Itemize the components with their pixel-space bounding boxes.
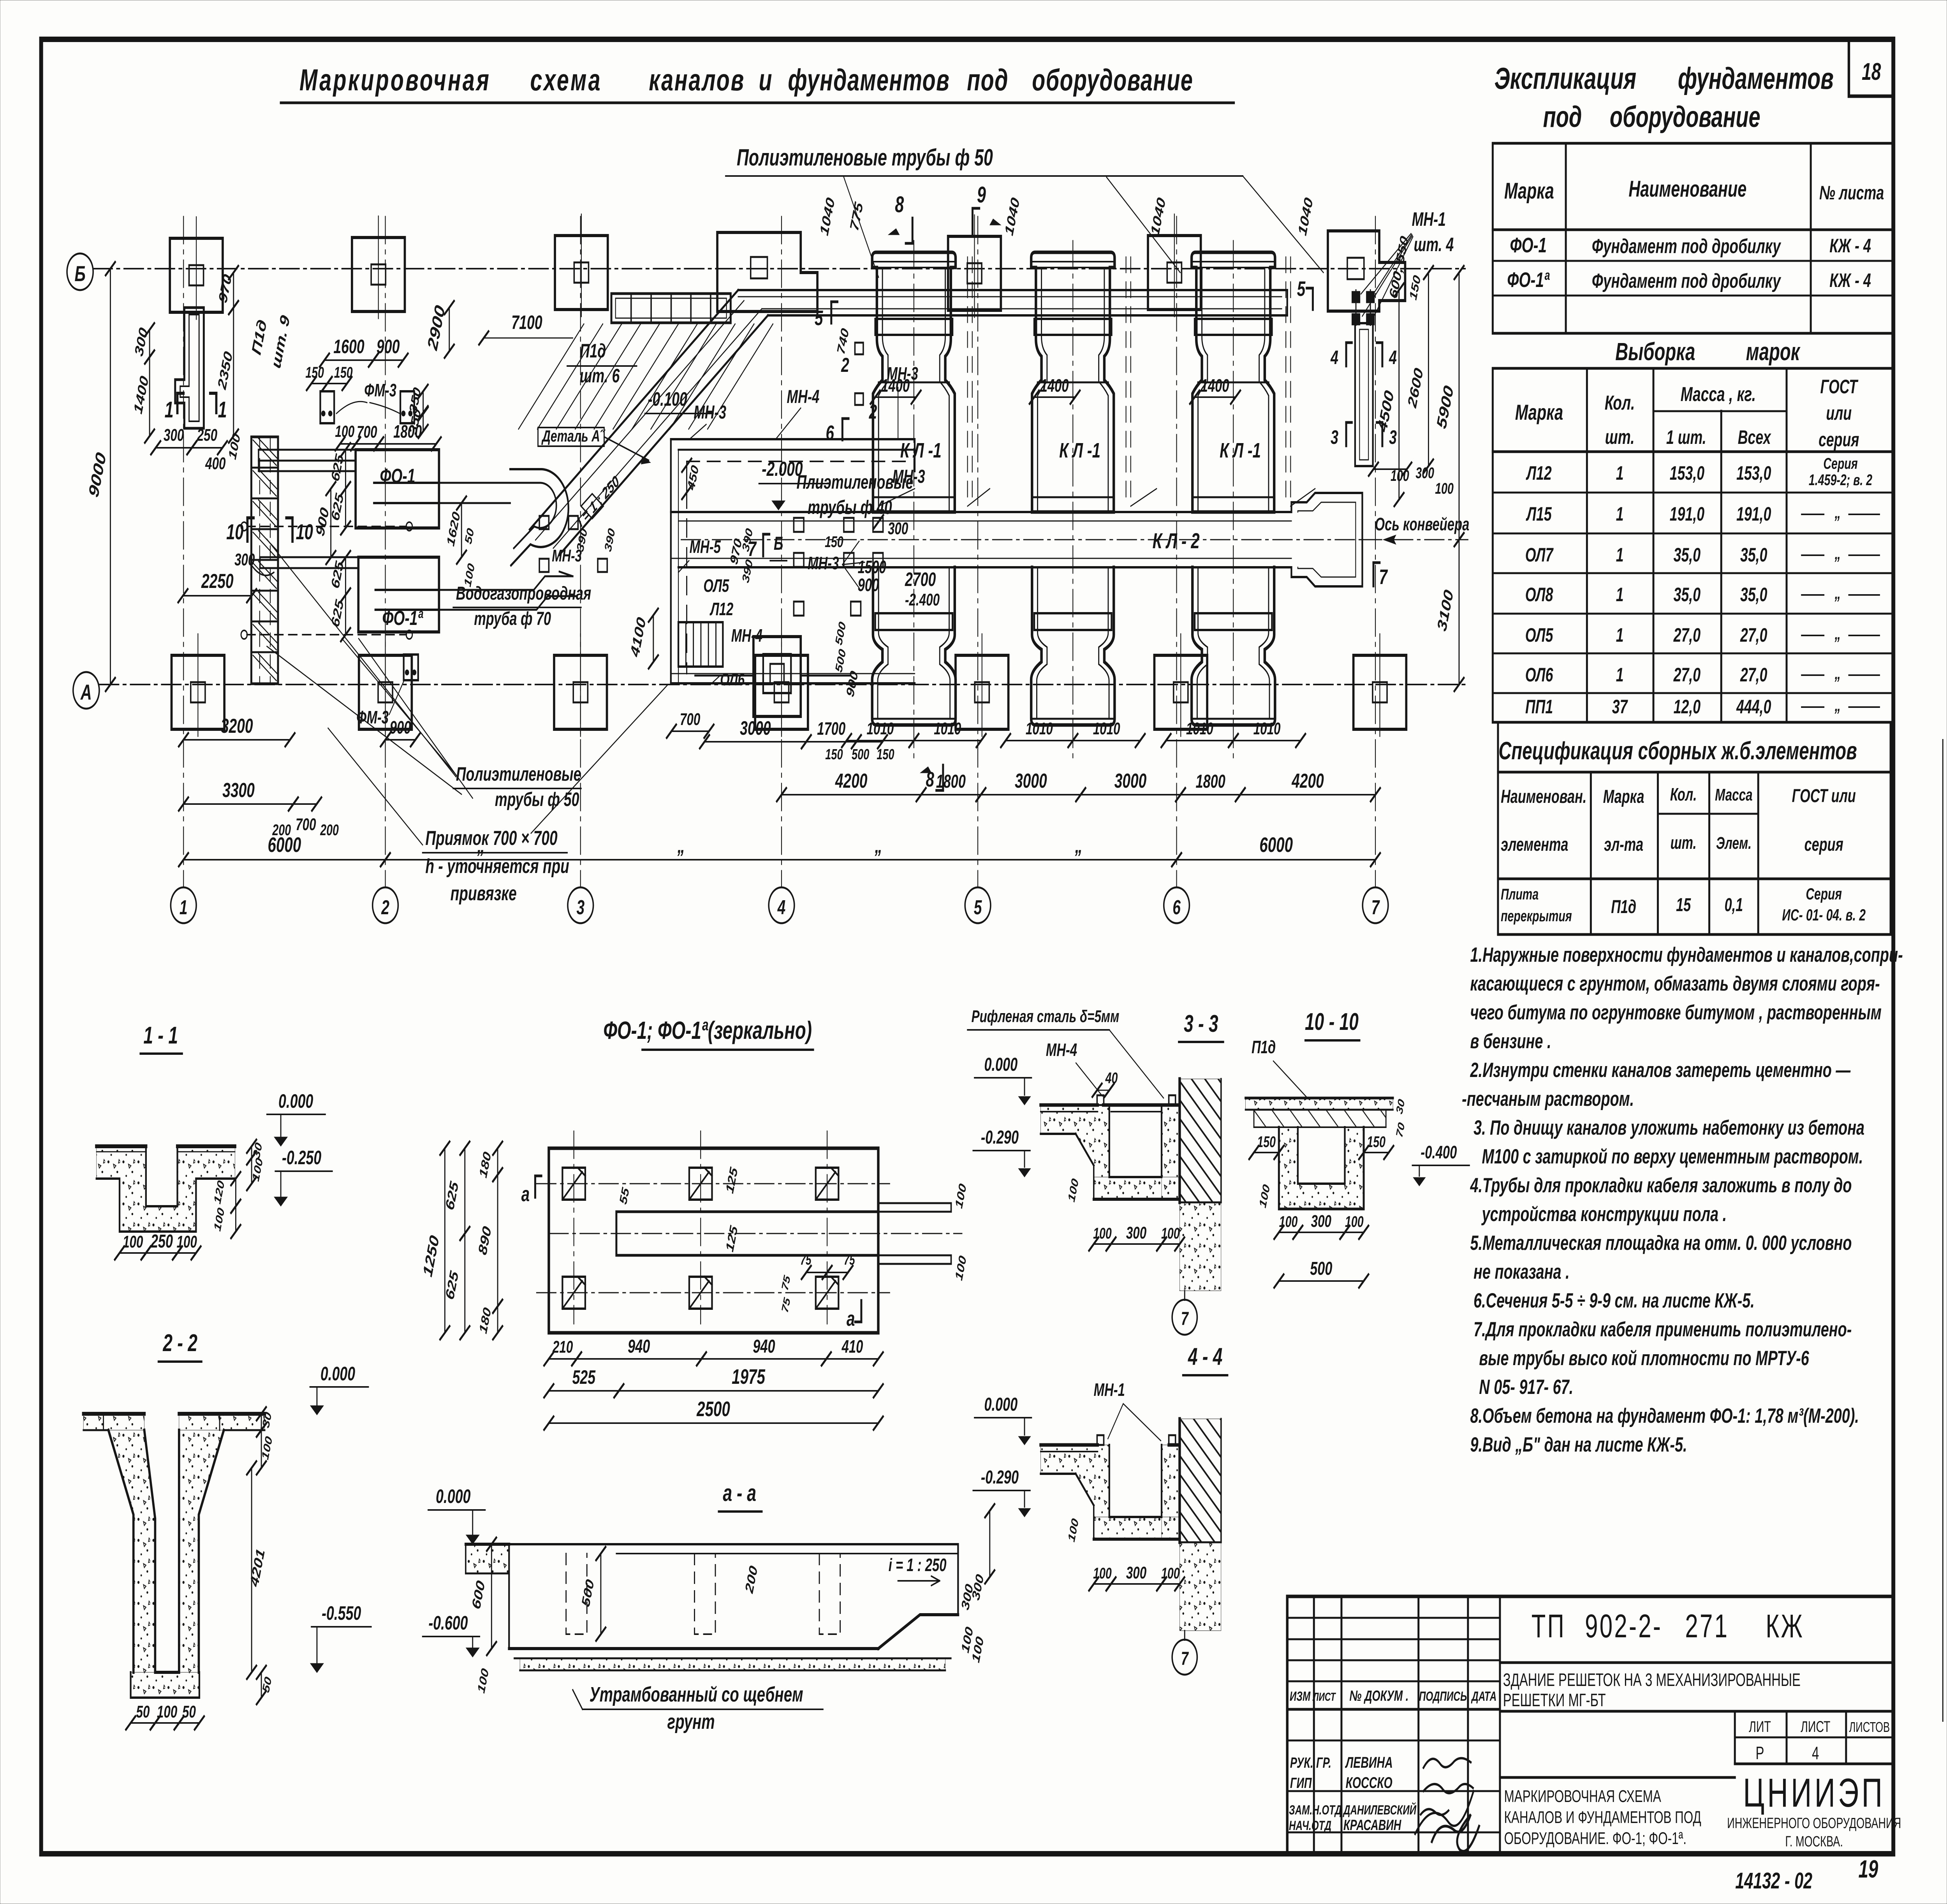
svg-text:Л12: Л12 [1526, 463, 1552, 484]
svg-text:Л15: Л15 [1526, 503, 1552, 525]
svg-text:27,0: 27,0 [1740, 664, 1767, 686]
svg-text:1800: 1800 [393, 422, 422, 442]
svg-text:5: 5 [974, 896, 982, 919]
dim 300 (T channel) [149, 330, 150, 357]
svg-text:„: „ [1834, 584, 1841, 603]
svg-text:-0.400: -0.400 [1421, 1143, 1457, 1163]
svg-text:191,0: 191,0 [1670, 503, 1704, 525]
svg-text:1010: 1010 [867, 719, 894, 738]
svg-text:2.Изнутри стенки каналов: 2.Изнутри стенки каналов затереть цемент… [1470, 1058, 1851, 1082]
svg-text:50: 50 [182, 1702, 196, 1721]
section 1-1 body [97, 1146, 235, 1232]
svg-text:оборудование: оборудование [1610, 100, 1760, 133]
svg-text:6: 6 [1172, 896, 1181, 919]
svg-text:6.Сечения 5-5 ÷ 9-9 см. на: 6.Сечения 5-5 ÷ 9-9 см. на листе КЖ-5. [1473, 1289, 1755, 1312]
svg-text:100: 100 [1435, 480, 1454, 497]
svg-text:ОЛ6: ОЛ6 [1525, 664, 1553, 686]
svg-text:ФО-1: ФО-1 [380, 465, 415, 487]
svg-text:300: 300 [1126, 1223, 1146, 1242]
svg-text:1: 1 [180, 896, 188, 919]
svg-text:-2.400: -2.400 [905, 590, 940, 609]
svg-text:18: 18 [1862, 58, 1881, 85]
svg-text:4 - 4: 4 - 4 [1188, 1343, 1222, 1370]
pit bottom line [671, 673, 915, 674]
svg-text:под: под [967, 63, 1009, 97]
svg-text:3200: 3200 [221, 714, 253, 737]
svg-text:6000: 6000 [268, 833, 301, 857]
column A5 [956, 655, 1009, 729]
column B2 [352, 238, 405, 311]
svg-text:N 05- 917- 67.: N 05- 917- 67. [1479, 1375, 1573, 1399]
svg-text:не показана .: не показана . [1473, 1260, 1570, 1283]
КЛ-1 jug 2 [1031, 252, 1114, 512]
svg-text:153,0: 153,0 [1736, 463, 1771, 484]
svg-text:КЖ: КЖ [1766, 1608, 1804, 1644]
ФО-1 plan anchor squares [562, 1168, 585, 1200]
svg-text:0.000: 0.000 [320, 1363, 355, 1385]
svg-text:марок: марок [1746, 338, 1801, 365]
svg-text:грунт: грунт [667, 1710, 715, 1733]
axis Б line [93, 268, 1465, 269]
svg-text:-0.600: -0.600 [428, 1612, 468, 1634]
section 2-2 bottom dims [131, 1722, 155, 1724]
svg-text:210: 210 [552, 1337, 573, 1357]
КЛ-2 axis dash [681, 539, 1379, 540]
dim chain 4200..4200 [782, 794, 921, 795]
grid line 4 [781, 216, 782, 887]
svg-text:РЕШЕТКИ МГ-БТ: РЕШЕТКИ МГ-БТ [1503, 1691, 1606, 1710]
svg-text:устройства конструкции пол: устройства конструкции пола . [1481, 1202, 1727, 1226]
svg-text:Марка: Марка [1603, 786, 1644, 807]
svg-text:„: „ [1075, 834, 1083, 857]
column B4 (with notch) [717, 232, 817, 311]
section 2-2 funnel right wall [179, 1430, 224, 1672]
svg-text:3: 3 [1331, 427, 1338, 448]
svg-text:-0.550: -0.550 [322, 1603, 361, 1624]
а-а bottom bed [520, 1658, 945, 1670]
svg-text:1: 1 [1616, 625, 1624, 646]
sheet number box 18 [1849, 39, 1893, 96]
svg-text:902-2-: 902-2- [1585, 1608, 1662, 1644]
svg-text:1: 1 [1616, 503, 1624, 525]
svg-text:в бензине .: в бензине . [1470, 1029, 1551, 1053]
svg-text:МАРКИРОВОЧНАЯ СХЕМА: МАРКИРОВОЧНАЯ СХЕМА [1504, 1787, 1662, 1806]
svg-text:НАЧ.ОТД: НАЧ.ОТД [1289, 1818, 1331, 1833]
svg-text:250: 250 [150, 1230, 173, 1251]
svg-text:10: 10 [296, 520, 313, 544]
svg-text:вые трубы высо кой плотно: вые трубы высо кой плотности по МРТУ-6 [1479, 1346, 1809, 1370]
dim 4100 [653, 615, 654, 662]
svg-text:ДАТА: ДАТА [1471, 1689, 1496, 1704]
svg-text:а - а: а - а [723, 1480, 756, 1506]
svg-text:-0.100: -0.100 [648, 389, 687, 410]
svg-text:КАНАЛОВ И ФУНДАМЕНТОВ ПОД: КАНАЛОВ И ФУНДАМЕНТОВ ПОД [1504, 1808, 1701, 1827]
svg-text:4200: 4200 [1291, 769, 1324, 792]
svg-text:Элем.: Элем. [1716, 834, 1752, 853]
svg-text:7: 7 [1379, 565, 1388, 589]
svg-text:ТП: ТП [1532, 1608, 1566, 1644]
svg-text:27,0: 27,0 [1740, 625, 1767, 646]
svg-text:1975: 1975 [732, 1365, 765, 1388]
svg-text:900: 900 [390, 718, 411, 738]
svg-text:Масса , кг.: Масса , кг. [1681, 383, 1756, 406]
dim chain 3200/3300 left [183, 739, 290, 741]
svg-text:7.Для прокладки кабеля пр: 7.Для прокладки кабеля применить полиэти… [1473, 1318, 1852, 1341]
svg-text:7: 7 [1181, 1648, 1189, 1669]
svg-text:900: 900 [377, 336, 400, 357]
svg-text:каналов: каналов [649, 63, 745, 97]
svg-text:ЦНИИЭП: ЦНИИЭП [1743, 1770, 1885, 1816]
svg-text:1: 1 [218, 397, 227, 422]
svg-text:300: 300 [888, 519, 908, 538]
svg-text:1700: 1700 [817, 719, 845, 739]
svg-text:100: 100 [1279, 1213, 1298, 1230]
svg-text:0.000: 0.000 [278, 1091, 313, 1112]
svg-text:i = 1 : 250: i = 1 : 250 [889, 1556, 947, 1575]
а-а left stub [466, 1544, 509, 1573]
svg-text:1 шт.: 1 шт. [1666, 427, 1706, 448]
svg-text:перекрытия: перекрытия [1501, 908, 1572, 925]
svg-text:1 - 1: 1 - 1 [143, 1022, 178, 1049]
МН-1 channel strip [1355, 323, 1373, 466]
svg-text:„: „ [1834, 664, 1841, 683]
а-а dashed anchor slots [566, 1554, 587, 1634]
svg-text:Марка: Марка [1515, 401, 1563, 425]
svg-text:150: 150 [305, 364, 324, 381]
column A1 [172, 655, 225, 729]
svg-text:-0.250: -0.250 [282, 1147, 321, 1168]
svg-text:МН-1: МН-1 [1412, 209, 1446, 230]
svg-text:0.000: 0.000 [436, 1486, 470, 1507]
scan right paper edge [1942, 740, 1943, 1721]
svg-text:444,0: 444,0 [1736, 696, 1771, 718]
svg-text:100: 100 [1345, 1213, 1364, 1230]
top walkway channel (П1д band) [738, 289, 1287, 291]
svg-text:3000: 3000 [740, 718, 771, 739]
svg-text:410: 410 [841, 1337, 863, 1357]
svg-text:1010: 1010 [934, 719, 961, 738]
svg-text:а: а [847, 1307, 855, 1330]
svg-text:8: 8 [895, 192, 904, 217]
svg-text:МН-3: МН-3 [694, 401, 726, 422]
svg-text:100: 100 [335, 422, 354, 440]
svg-text:ЛИСТ: ЛИСТ [1312, 1690, 1336, 1703]
svg-text:7: 7 [1181, 1308, 1189, 1329]
svg-text:3: 3 [576, 896, 584, 919]
svg-text:3300: 3300 [222, 779, 255, 802]
svg-text:ГОСТ: ГОСТ [1820, 376, 1859, 398]
svg-text:ИС- 01- 04. в. 2: ИС- 01- 04. в. 2 [1782, 906, 1866, 924]
svg-text:2700: 2700 [905, 569, 936, 590]
svg-text:1400: 1400 [881, 376, 910, 396]
svg-text:6000: 6000 [1259, 833, 1293, 857]
svg-text:ФМ-3: ФМ-3 [364, 381, 396, 401]
svg-text:15: 15 [1676, 894, 1691, 915]
dim 1400 [149, 357, 150, 436]
ФМ-3 anchor plates top [320, 391, 334, 423]
КЛ-2 head (right end) [1291, 493, 1362, 586]
ФО-1 plan slot [616, 1212, 878, 1255]
svg-text:35,0: 35,0 [1674, 544, 1701, 566]
column A3 [554, 655, 607, 729]
svg-text:150: 150 [825, 746, 843, 762]
svg-text:37: 37 [1612, 696, 1628, 718]
10-10 dims [1254, 1152, 1279, 1153]
svg-text:1800: 1800 [936, 771, 966, 792]
svg-text:1: 1 [1616, 584, 1624, 605]
column B7 (with tab) [1328, 231, 1405, 311]
svg-text:7100: 7100 [511, 312, 542, 333]
dims bottom pit [671, 730, 709, 732]
svg-text:ЛИСТ: ЛИСТ [1801, 1718, 1830, 1735]
svg-text:4.Трубы для прокладки кабе: 4.Трубы для прокладки кабеля заложить в … [1470, 1174, 1852, 1197]
svg-text:100: 100 [1093, 1225, 1112, 1242]
svg-text:КРАСАВИН: КРАСАВИН [1343, 1816, 1401, 1833]
svg-text:Масса: Масса [1715, 785, 1752, 804]
svg-text:трубы ф 50: трубы ф 50 [495, 789, 579, 810]
КЛ-1 jug 1 [872, 252, 956, 512]
svg-text:-0.290: -0.290 [981, 1126, 1019, 1147]
svg-text:6: 6 [826, 421, 834, 445]
ФО-1 plan centerlines [537, 1183, 890, 1184]
svg-text:Б: Б [774, 533, 783, 554]
svg-text:МН-1: МН-1 [1094, 1380, 1125, 1400]
svg-text:ПП1: ПП1 [1525, 696, 1553, 718]
svg-text:трубы ф 40: трубы ф 40 [808, 497, 892, 518]
svg-text:касающиеся с грунтом, обмаза: касающиеся с грунтом, обмазать двумя сло… [1470, 972, 1880, 995]
svg-text:„: „ [1834, 503, 1841, 522]
svg-text:Ось конвейера: Ось конвейера [1375, 515, 1470, 535]
channel loop inner [510, 483, 556, 548]
dashed pipe run between ФО [247, 526, 407, 527]
svg-text:схема: схема [530, 63, 602, 97]
svg-text:Фундамент под дробилку: Фундамент под дробилку [1592, 235, 1781, 258]
svg-text:фундаментов: фундаментов [788, 63, 950, 97]
svg-text:Серия: Серия [1806, 885, 1842, 903]
svg-text:27,0: 27,0 [1673, 664, 1701, 686]
svg-text:Кол.: Кол. [1605, 391, 1635, 414]
svg-text:ЛИСТОВ: ЛИСТОВ [1849, 1719, 1890, 1735]
svg-text:„: „ [1834, 624, 1841, 643]
svg-text:ФО-1ª: ФО-1ª [382, 607, 424, 630]
svg-text:ОЛ5: ОЛ5 [703, 576, 729, 596]
svg-text:1010: 1010 [1093, 719, 1120, 738]
svg-text:50: 50 [136, 1702, 150, 1721]
svg-text:0,1: 0,1 [1725, 894, 1743, 915]
grid line 6 [1176, 216, 1177, 887]
svg-text:150: 150 [1367, 1133, 1385, 1151]
svg-text:ГОСТ или: ГОСТ или [1792, 785, 1856, 806]
svg-text:№ ДОКУМ .: № ДОКУМ . [1349, 1687, 1408, 1704]
svg-text:эл-та: эл-та [1604, 834, 1643, 855]
svg-text:150: 150 [334, 364, 353, 381]
svg-text:2: 2 [381, 896, 389, 919]
svg-text:1: 1 [165, 397, 174, 422]
zigzag notches on diagonal [581, 494, 603, 519]
ramp hatch [519, 324, 584, 429]
svg-text:-песчаным раствором.: -песчаным раствором. [1462, 1087, 1634, 1110]
svg-text:2250: 2250 [201, 570, 233, 593]
svg-text:300: 300 [1126, 1563, 1146, 1582]
svg-text:ДАНИЛЕВСКИЙ: ДАНИЛЕВСКИЙ [1342, 1802, 1416, 1818]
priyamok column [753, 637, 801, 716]
svg-text:4: 4 [1389, 347, 1397, 368]
title block [1287, 1596, 1893, 1854]
dim 2350 [233, 308, 234, 436]
svg-text:35,0: 35,0 [1740, 584, 1767, 605]
svg-text:К Л -1: К Л -1 [1220, 439, 1261, 462]
svg-text:100: 100 [123, 1232, 143, 1251]
svg-text:153,0: 153,0 [1670, 463, 1704, 484]
pit dashed inner [687, 461, 907, 462]
svg-text:1010: 1010 [1186, 719, 1213, 738]
svg-text:2 - 2: 2 - 2 [163, 1330, 197, 1357]
dims 1010 pairs [847, 740, 914, 741]
column A4 [755, 655, 808, 729]
svg-text:ЗДАНИЕ РЕШЕТОК НА 3 МЕХАНИЗИ: ЗДАНИЕ РЕШЕТОК НА 3 МЕХАНИЗИРОВАННЫЕ [1503, 1670, 1801, 1690]
pipe squares grid [794, 518, 804, 532]
section 3-3 body [1040, 1105, 1109, 1177]
svg-text:250: 250 [197, 426, 217, 445]
table 2: выборка марок grid [1493, 368, 1893, 722]
svg-text:1600: 1600 [333, 336, 364, 357]
dims above ФО-1 [324, 359, 373, 361]
svg-text:Утрамбованный со щебнем: Утрамбованный со щебнем [590, 1683, 803, 1706]
svg-text:150: 150 [1257, 1133, 1276, 1151]
svg-text:Л12: Л12 [709, 600, 734, 619]
svg-text:h - уточняется при: h - уточняется при [425, 855, 569, 878]
svg-text:300: 300 [164, 426, 184, 445]
svg-text:200: 200 [320, 822, 338, 839]
grid line 3 [580, 216, 581, 887]
dashed riser lines next to jugs [967, 257, 968, 506]
svg-text:40: 40 [1105, 1070, 1118, 1087]
svg-text:А: А [80, 681, 92, 705]
svg-text:„: „ [677, 834, 685, 857]
svg-text:1010: 1010 [1253, 719, 1281, 738]
а-а rotated dims [491, 1544, 492, 1649]
foundation ФО-1а [358, 557, 439, 632]
zigzag channel to ФО-1а [500, 576, 573, 590]
svg-text:К Л -1: К Л -1 [1059, 439, 1100, 462]
svg-text:ЛИТ: ЛИТ [1749, 1718, 1771, 1735]
ФО-1 plan left dims [444, 1148, 445, 1333]
svg-text:3: 3 [1389, 427, 1397, 448]
svg-text:„: „ [1834, 696, 1841, 715]
svg-text:привязке: привязке [451, 882, 517, 905]
axis А line [99, 684, 1465, 685]
svg-text:700: 700 [357, 422, 377, 442]
svg-text:„: „ [1834, 544, 1841, 563]
dim 300/250 bottom [156, 447, 192, 449]
svg-text:900: 900 [858, 575, 879, 595]
svg-text:-0.290: -0.290 [981, 1466, 1019, 1487]
svg-text:27,0: 27,0 [1673, 625, 1701, 646]
svg-text:ОЛ6: ОЛ6 [720, 670, 745, 689]
svg-text:14132 - 02: 14132 - 02 [1735, 1868, 1812, 1893]
svg-text:3000: 3000 [1114, 769, 1147, 792]
svg-text:2500: 2500 [696, 1397, 730, 1421]
svg-text:Экспликация: Экспликация [1495, 62, 1636, 95]
svg-text:ФО-1ª: ФО-1ª [1507, 268, 1550, 292]
svg-text:П1д: П1д [1252, 1038, 1276, 1058]
svg-text:ГИП: ГИП [1290, 1774, 1312, 1791]
svg-text:525: 525 [572, 1367, 596, 1388]
svg-text:ФО-1: ФО-1 [1510, 234, 1547, 257]
svg-text:ОЛ5: ОЛ5 [1525, 625, 1553, 646]
table 1: экспликация grid [1493, 143, 1893, 333]
column B3 [555, 236, 608, 310]
svg-text:100: 100 [1161, 1565, 1180, 1582]
svg-text:7: 7 [1371, 896, 1380, 919]
axis Б circle [67, 253, 93, 290]
svg-text:ОЛ7: ОЛ7 [1525, 544, 1554, 566]
column B5 [948, 236, 1001, 310]
grid line 2 [385, 216, 386, 887]
svg-text:Полиэтиленовые: Полиэтиленовые [456, 764, 581, 785]
svg-text:шт.: шт. [1605, 426, 1635, 449]
svg-text:4: 4 [1330, 347, 1338, 368]
svg-text:5.Металлическая площадка на: 5.Металлическая площадка на отм. 0. 000 … [1470, 1231, 1852, 1255]
svg-text:3. По днищу каналов уложить: 3. По днищу каналов уложить набетонку из… [1473, 1116, 1864, 1139]
ФО-1 plan bottom dims [549, 1358, 576, 1360]
svg-text:Наименован.: Наименован. [1501, 786, 1586, 807]
КЛ-1 jug 3 [1192, 252, 1275, 512]
svg-text:9.Вид „Б" дан на листе КЖ-: 9.Вид „Б" дан на листе КЖ-5. [1470, 1433, 1687, 1456]
svg-text:элемента: элемента [1501, 834, 1568, 855]
svg-text:а: а [521, 1183, 530, 1206]
svg-text:П1д: П1д [580, 340, 606, 362]
svg-text:75: 75 [844, 1252, 855, 1268]
svg-text:ОЛ8: ОЛ8 [1525, 584, 1553, 605]
channel loop (Деталь А) outer [510, 469, 569, 565]
svg-text:чего битума по огрунтовке: чего битума по огрунтовке битумом , раст… [1470, 1001, 1882, 1024]
section 1-1 rotated dims [251, 1146, 252, 1158]
channel T (section 1-1 object) [175, 308, 204, 428]
svg-text:9: 9 [977, 182, 986, 208]
svg-text:8.Объем бетона на фундамент: 8.Объем бетона на фундамент ФО-1: 1,78 м… [1470, 1404, 1859, 1427]
svg-text:МН-3: МН-3 [893, 466, 925, 487]
svg-text:Р: Р [1756, 1744, 1764, 1763]
svg-text:4: 4 [777, 896, 785, 919]
svg-text:0.000: 0.000 [984, 1054, 1018, 1075]
МН-1 black plates [1352, 291, 1360, 303]
channels to ФО-1а [260, 556, 359, 558]
svg-text:300: 300 [1311, 1212, 1331, 1231]
svg-text:Г. МОСКВА.: Г. МОСКВА. [1785, 1833, 1843, 1849]
svg-text:75: 75 [800, 1252, 812, 1268]
svg-text:Всех: Всех [1738, 427, 1771, 448]
svg-text:500: 500 [852, 746, 870, 762]
diagonal channel lines [530, 290, 738, 530]
grid line 1 [183, 216, 184, 887]
channels to ФО-1 (pipes) [259, 449, 356, 451]
svg-text:12,0: 12,0 [1674, 696, 1701, 718]
svg-text:1400: 1400 [1201, 376, 1229, 396]
dim chain 6000 row [183, 859, 385, 860]
svg-text:1400: 1400 [1040, 376, 1069, 396]
stair strip (ladder) [251, 437, 278, 684]
title block: лит/лист/листов [1734, 1711, 1736, 1764]
pit outline МН-4 [671, 439, 915, 471]
svg-text:„: „ [875, 834, 882, 857]
svg-text:3 - 3: 3 - 3 [1184, 1010, 1218, 1037]
svg-text:400: 400 [205, 454, 225, 473]
table 3: спецификация grid [1498, 772, 1891, 934]
column B1 [170, 238, 223, 312]
stairs Л12 [678, 622, 723, 667]
svg-text:100: 100 [157, 1702, 177, 1721]
